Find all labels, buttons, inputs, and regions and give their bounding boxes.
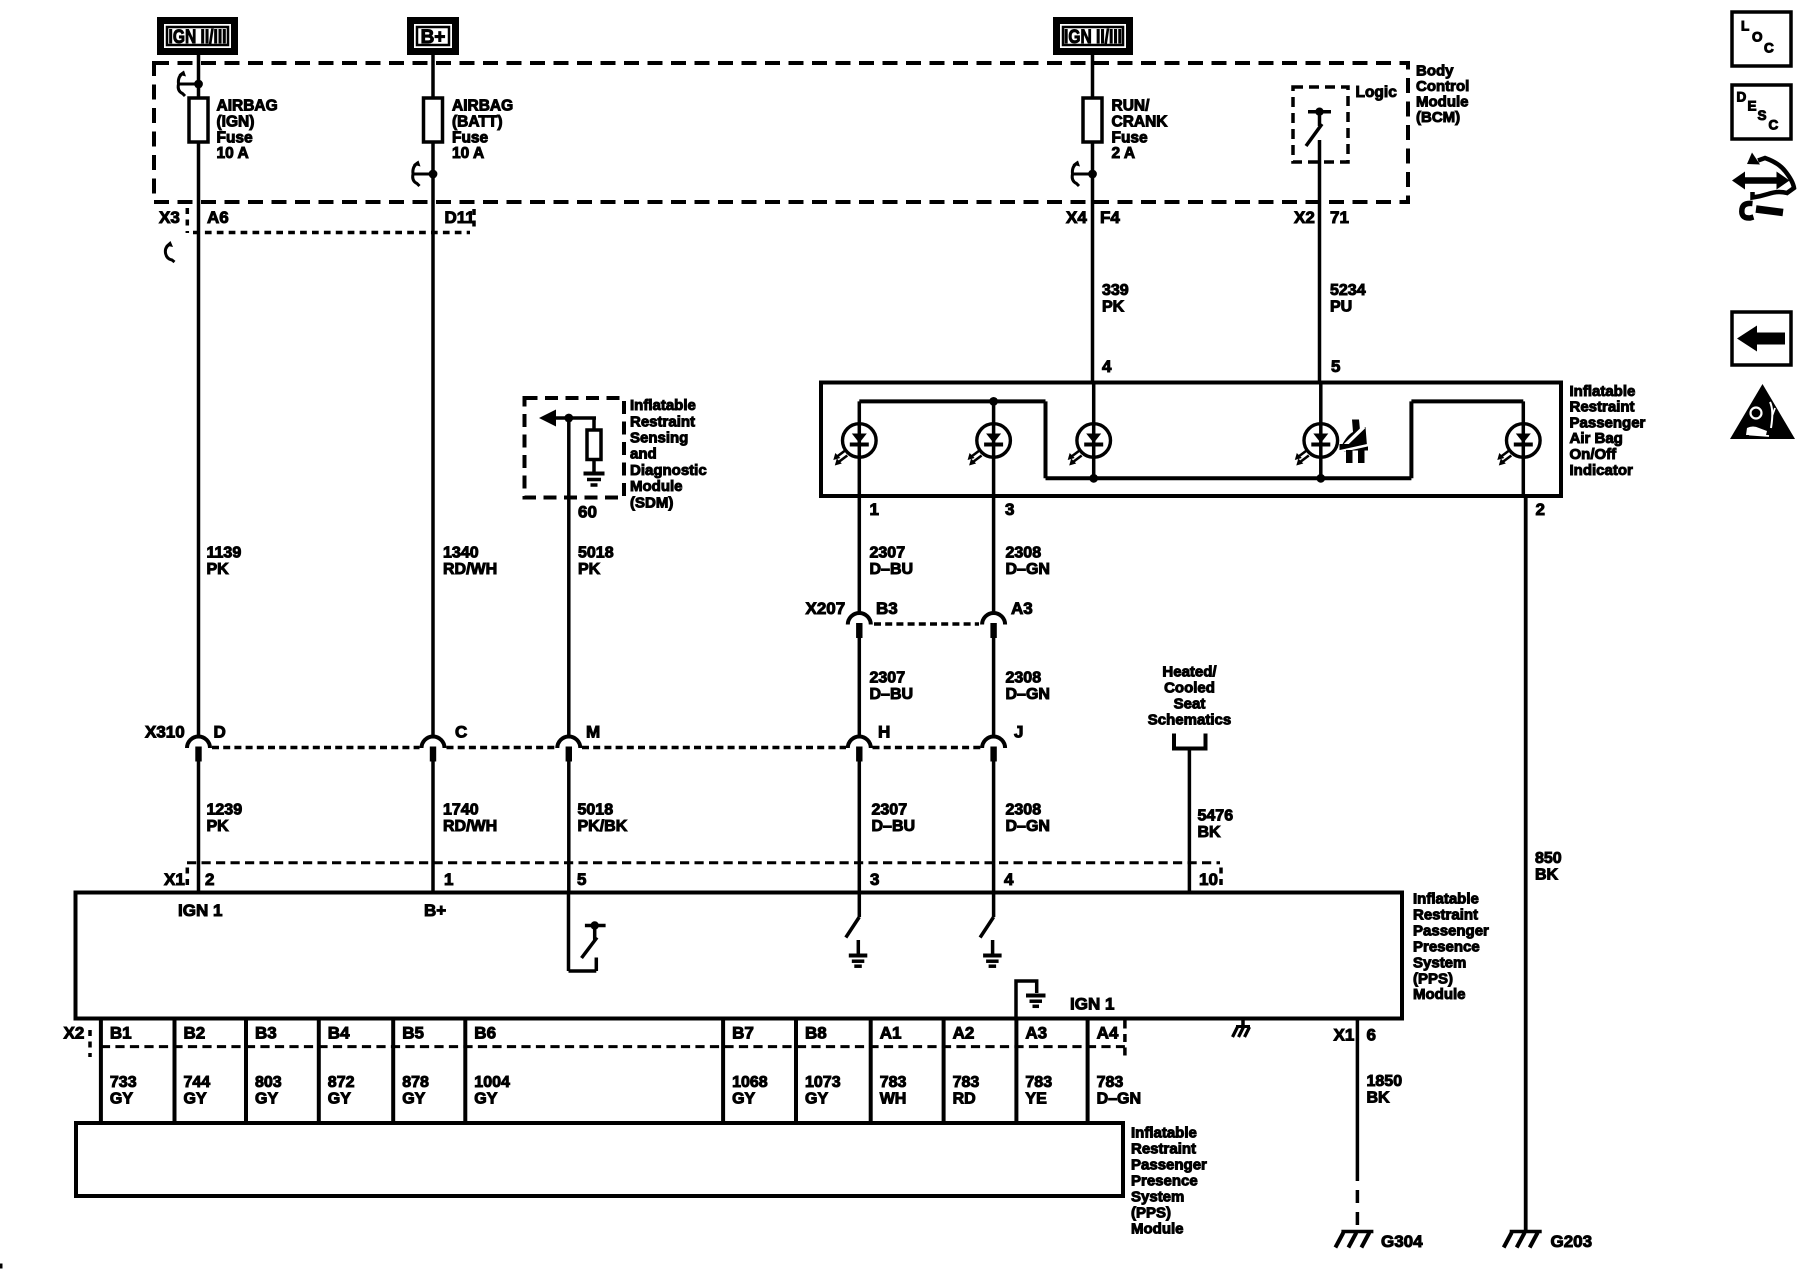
svg-text:Restraint: Restraint — [1570, 399, 1635, 416]
svg-text:783: 783 — [1097, 1074, 1124, 1091]
X2 dotted separator — [88, 1030, 92, 1057]
svg-text:Heated/: Heated/ — [1162, 663, 1217, 680]
svg-text:Control: Control — [1416, 78, 1469, 95]
fuse AIRBAG (IGN) 10A — [189, 98, 208, 142]
svg-text:WH: WH — [880, 1091, 907, 1108]
LED 4 — [1295, 424, 1338, 466]
svg-text:2 A: 2 A — [1112, 145, 1136, 162]
node: LED3 bottom — [1089, 474, 1098, 483]
svg-text:Inflatable: Inflatable — [630, 397, 696, 414]
svg-text:X1: X1 — [1334, 1025, 1355, 1044]
svg-text:Restraint: Restraint — [1131, 1140, 1196, 1157]
svg-text:(PPS): (PPS) — [1413, 970, 1453, 987]
node: LED4 bottom — [1316, 474, 1325, 483]
svg-text:10 A: 10 A — [217, 145, 249, 162]
svg-text:BK: BK — [1367, 1090, 1391, 1107]
fuse AIRBAG (BATT) 10A — [424, 98, 443, 142]
LED 2 — [968, 424, 1011, 466]
svg-text:A1: A1 — [880, 1023, 902, 1042]
svg-text:872: 872 — [328, 1074, 355, 1091]
svg-text:1068: 1068 — [732, 1074, 768, 1091]
X3 dotted separator — [186, 208, 190, 233]
internal switch to ground (pin 4) — [980, 893, 1002, 967]
svg-text:1: 1 — [444, 870, 453, 889]
power feed box IGN II/III (left) — [161, 21, 235, 52]
indicator inner top-right bus — [1411, 399, 1523, 403]
logic switch blade — [1306, 124, 1322, 146]
svg-text:Indicator: Indicator — [1570, 462, 1634, 479]
svg-text:Body: Body — [1416, 62, 1454, 79]
svg-text:AIRBAG: AIRBAG — [217, 98, 278, 115]
wire 5018 PK vertical — [567, 418, 571, 736]
chassis ground on PPS bottom — [1233, 1019, 1251, 1038]
svg-text:M: M — [586, 722, 600, 741]
svg-text:E: E — [1748, 99, 1757, 114]
svg-text:5234: 5234 — [1330, 282, 1366, 299]
svg-text:B+: B+ — [424, 901, 446, 920]
svg-text:H: H — [878, 722, 890, 741]
svg-text:Presence: Presence — [1131, 1172, 1198, 1189]
svg-text:2308: 2308 — [1006, 670, 1042, 687]
SDM arrow line — [539, 410, 596, 427]
svg-text:X310: X310 — [145, 722, 185, 741]
svg-text:60: 60 — [578, 502, 597, 521]
svg-text:Module: Module — [1131, 1220, 1184, 1237]
wire 5018 PK/BK — [567, 760, 571, 893]
power feed box IGN II/III (right) — [1057, 21, 1130, 52]
svg-text:IGN 1: IGN 1 — [1070, 994, 1114, 1013]
svg-text:F4: F4 — [1100, 208, 1120, 227]
svg-text:RD: RD — [953, 1091, 976, 1108]
wire 1850 BK dashed — [1356, 1168, 1360, 1230]
svg-text:D11: D11 — [445, 208, 475, 227]
svg-text:Cooled: Cooled — [1164, 679, 1215, 696]
svg-text:PK: PK — [207, 561, 230, 578]
wire 2308 D-GN upper — [992, 496, 996, 614]
svg-text:Logic: Logic — [1356, 84, 1398, 101]
svg-text:GY: GY — [805, 1091, 828, 1108]
svg-text:RUN/: RUN/ — [1112, 98, 1151, 115]
svg-text:B8: B8 — [805, 1023, 827, 1042]
svg-text:A3: A3 — [1011, 599, 1033, 618]
svg-text:A3: A3 — [1025, 1023, 1047, 1042]
svg-text:Passenger: Passenger — [1131, 1156, 1207, 1173]
airbag warning triangle icon — [1730, 384, 1795, 439]
svg-text:B2: B2 — [184, 1023, 206, 1042]
svg-text:D–BU: D–BU — [872, 818, 916, 835]
svg-text:C: C — [455, 722, 467, 741]
LED4 lead — [1319, 384, 1323, 478]
svg-text:System: System — [1413, 954, 1466, 971]
svg-text:BK: BK — [1198, 824, 1222, 841]
svg-text:AIRBAG: AIRBAG — [452, 98, 513, 115]
svg-text:3: 3 — [870, 870, 879, 889]
svg-text:IGN II/III: IGN II/III — [169, 27, 227, 48]
svg-text:PK/BK: PK/BK — [578, 818, 628, 835]
splice hook on wire 1 — [178, 71, 203, 97]
svg-text:803: 803 — [255, 1074, 282, 1091]
svg-text:733: 733 — [110, 1074, 137, 1091]
Logic dashed box — [1293, 87, 1348, 162]
svg-text:Inflatable: Inflatable — [1413, 891, 1479, 908]
svg-text:GY: GY — [184, 1091, 207, 1108]
svg-text:(PPS): (PPS) — [1131, 1204, 1171, 1221]
svg-text:744: 744 — [184, 1074, 211, 1091]
svg-text:X3: X3 — [159, 208, 180, 227]
svg-text:Fuse: Fuse — [217, 129, 254, 146]
wire 2307 D-BU upper — [858, 496, 862, 614]
svg-text:BK: BK — [1535, 867, 1559, 884]
wire 2307 D-BU mid — [858, 637, 862, 736]
X310 connector arc D — [187, 737, 210, 762]
svg-text:4: 4 — [1102, 357, 1112, 376]
X310 connector arc H — [848, 737, 871, 762]
X207 dashed line — [874, 622, 979, 626]
svg-text:3: 3 — [1005, 500, 1014, 519]
svg-text:1: 1 — [870, 500, 879, 519]
svg-text:Air Bag: Air Bag — [1570, 430, 1623, 447]
node: LED2 top tap — [989, 397, 998, 406]
svg-text:1139: 1139 — [207, 545, 242, 562]
logic switch contact — [1308, 108, 1331, 127]
internal switch (pin 5) — [569, 893, 606, 972]
svg-text:IGN II/III: IGN II/III — [1064, 27, 1122, 48]
svg-text:A2: A2 — [953, 1023, 975, 1042]
LED3 lead — [1092, 384, 1096, 478]
fuse RUN/CRANK 2A — [1083, 98, 1102, 142]
wire 2308 D-GN mid — [992, 637, 996, 736]
X2 connector cell verticals — [101, 1021, 1088, 1124]
svg-text:D: D — [214, 722, 226, 741]
svg-text:1740: 1740 — [443, 802, 479, 819]
svg-text:L: L — [1741, 18, 1749, 33]
X1 connector dashed line — [187, 861, 1220, 864]
svg-text:GY: GY — [255, 1091, 278, 1108]
X3 dotted end bracket — [472, 209, 476, 232]
DESC icon box — [1732, 85, 1791, 139]
indicator inner bottom bus — [1046, 476, 1412, 480]
LED 5 — [1497, 424, 1540, 466]
schematic navigation icon (arrows + wrench) — [1732, 153, 1794, 219]
SDM dashed box — [525, 398, 625, 498]
harness continuation curl below X3 — [165, 244, 174, 263]
svg-text:Passenger: Passenger — [1570, 414, 1646, 431]
svg-text:Fuse: Fuse — [1112, 129, 1149, 146]
svg-text:GY: GY — [110, 1091, 133, 1108]
svg-text:2308: 2308 — [1006, 802, 1042, 819]
svg-text:A6: A6 — [207, 208, 229, 227]
svg-text:S: S — [1758, 108, 1767, 123]
svg-text:and: and — [630, 446, 657, 463]
svg-text:G304: G304 — [1381, 1232, 1423, 1251]
svg-text:5018: 5018 — [578, 802, 614, 819]
svg-text:D–GN: D–GN — [1006, 818, 1050, 835]
svg-text:Restraint: Restraint — [630, 413, 695, 430]
wire 5476 BK vertical — [1188, 749, 1192, 893]
svg-text:5476: 5476 — [1198, 807, 1234, 824]
indicator inner top bus — [859, 399, 1045, 403]
svg-text:10: 10 — [1199, 870, 1218, 889]
ground G203 — [1504, 1232, 1542, 1248]
svg-text:(IGN): (IGN) — [217, 114, 255, 131]
wire 339 PK vertical (RUN/CRANK feed) — [1091, 55, 1095, 384]
svg-text:Diagnostic: Diagnostic — [630, 462, 707, 479]
wire 2308 D-GN lower — [992, 760, 996, 893]
svg-text:Module: Module — [630, 478, 683, 495]
X2 cell dashed right edge — [1123, 1021, 1127, 1061]
svg-text:IGN 1: IGN 1 — [178, 901, 222, 920]
svg-text:783: 783 — [880, 1074, 907, 1091]
SDM resistor — [587, 418, 601, 472]
svg-text:GY: GY — [402, 1091, 425, 1108]
svg-text:2308: 2308 — [1006, 545, 1042, 562]
svg-text:5: 5 — [577, 870, 586, 889]
wire 1239 PK — [197, 760, 201, 893]
svg-text:5: 5 — [1331, 357, 1340, 376]
reference bracket — [1174, 734, 1206, 749]
svg-text:C: C — [1769, 117, 1779, 132]
X2 connector dashed line — [101, 1045, 1125, 1048]
svg-text:(SDM): (SDM) — [630, 494, 673, 511]
svg-text:Seat: Seat — [1174, 695, 1206, 712]
wire 1139 PK vertical (IGN feed) — [197, 55, 201, 736]
svg-text:10 A: 10 A — [452, 145, 484, 162]
svg-text:1004: 1004 — [474, 1074, 510, 1091]
svg-text:RD/WH: RD/WH — [443, 561, 497, 578]
X1 dotted separator — [186, 868, 190, 891]
svg-text:B4: B4 — [328, 1023, 350, 1042]
svg-text:878: 878 — [402, 1074, 429, 1091]
lower PPS module box — [76, 1123, 1123, 1196]
svg-text:850: 850 — [1535, 850, 1562, 867]
wire 1340 RD/WH vertical (B+ feed) — [431, 55, 435, 736]
LED 1 — [833, 424, 876, 466]
X207 connector arc A3 — [982, 613, 1005, 638]
svg-text:A4: A4 — [1097, 1023, 1119, 1042]
svg-text:(BATT): (BATT) — [452, 114, 503, 131]
svg-text:GY: GY — [474, 1091, 497, 1108]
svg-text:B7: B7 — [732, 1023, 754, 1042]
svg-text:5018: 5018 — [578, 545, 614, 562]
svg-text:Module: Module — [1416, 94, 1469, 111]
Body Control Module (BCM) dashed box — [154, 63, 1408, 202]
LED5 lead — [1522, 401, 1526, 496]
svg-text:1239: 1239 — [207, 802, 243, 819]
back arrow icon box — [1732, 312, 1791, 365]
wire 1740 RD/WH — [431, 760, 435, 893]
SDM ground — [584, 474, 605, 486]
wire 850 BK vertical — [1524, 496, 1528, 1231]
svg-text:339: 339 — [1102, 282, 1129, 299]
svg-text:D–BU: D–BU — [870, 561, 914, 578]
svg-text:D–GN: D–GN — [1006, 686, 1050, 703]
svg-text:6: 6 — [1367, 1025, 1376, 1044]
svg-text:1850: 1850 — [1367, 1073, 1403, 1090]
svg-text:783: 783 — [953, 1074, 980, 1091]
svg-text:B+: B+ — [421, 27, 446, 48]
svg-text:X1: X1 — [164, 870, 185, 889]
svg-text:RD/WH: RD/WH — [443, 818, 497, 835]
svg-text:X2: X2 — [1294, 208, 1315, 227]
internal switch to ground (pin 3) — [846, 893, 868, 967]
wire 5234 PU vertical — [1318, 140, 1322, 384]
svg-text:D–BU: D–BU — [870, 686, 914, 703]
svg-text:Presence: Presence — [1413, 938, 1480, 955]
svg-text:G203: G203 — [1551, 1232, 1593, 1251]
svg-text:Inflatable: Inflatable — [1570, 383, 1636, 400]
svg-text:Fuse: Fuse — [452, 129, 489, 146]
svg-text:D–GN: D–GN — [1097, 1091, 1141, 1108]
svg-text:B1: B1 — [110, 1023, 132, 1042]
splice hook on wire 6 — [1072, 161, 1097, 187]
svg-text:D: D — [1737, 89, 1747, 104]
wire 2307 D-BU lower — [858, 760, 862, 893]
svg-text:On/Off: On/Off — [1570, 446, 1618, 463]
Inflatable Restraint Passenger Air Bag On/Off Indicator box — [821, 383, 1561, 497]
LED2 lead — [992, 401, 996, 496]
svg-text:PK: PK — [1102, 299, 1125, 316]
svg-text:Passenger: Passenger — [1413, 922, 1489, 939]
svg-text:Inflatable: Inflatable — [1131, 1124, 1197, 1141]
svg-text:2: 2 — [1536, 500, 1545, 519]
svg-text:X4: X4 — [1066, 208, 1087, 227]
X310 connector arc C — [422, 737, 445, 762]
svg-text:Sensing: Sensing — [630, 430, 688, 447]
indicator inner right riser — [1409, 401, 1413, 478]
svg-text:1340: 1340 — [443, 545, 479, 562]
wire 1850 BK solid — [1356, 1042, 1360, 1168]
LED1 lead — [858, 401, 862, 496]
svg-text:71: 71 — [1330, 208, 1349, 227]
svg-text:CRANK: CRANK — [1112, 114, 1169, 131]
svg-text:GY: GY — [732, 1091, 755, 1108]
X310 connector arc M — [557, 737, 580, 762]
X1 dotted end bracket — [1219, 868, 1223, 891]
svg-text:783: 783 — [1025, 1074, 1052, 1091]
svg-text:C: C — [1764, 40, 1774, 55]
svg-text:Restraint: Restraint — [1413, 907, 1478, 924]
svg-text:X2: X2 — [64, 1023, 85, 1042]
LOC icon box — [1732, 12, 1791, 66]
svg-text:PK: PK — [578, 561, 601, 578]
seat belt icon — [1339, 420, 1369, 464]
power feed box B+ — [411, 21, 456, 52]
internal IGN 1 ground — [1016, 981, 1046, 1019]
svg-text:B6: B6 — [474, 1023, 496, 1042]
svg-text:1073: 1073 — [805, 1074, 841, 1091]
X3 dotted connector line — [193, 231, 470, 235]
X310 dashed line — [212, 746, 420, 750]
page speck (left edge) — [0, 1264, 3, 1269]
svg-text:PU: PU — [1330, 299, 1352, 316]
splice hook on wire 2 — [413, 161, 438, 187]
svg-text:2307: 2307 — [870, 670, 906, 687]
svg-text:(BCM): (BCM) — [1416, 109, 1460, 126]
X310 connector arc J — [982, 737, 1005, 762]
svg-text:B3: B3 — [255, 1023, 277, 1042]
svg-text:2: 2 — [205, 870, 214, 889]
X207 connector arc B3 — [848, 613, 871, 638]
svg-text:Schematics: Schematics — [1148, 711, 1231, 728]
svg-text:J: J — [1014, 722, 1023, 741]
LED 3 — [1068, 424, 1111, 466]
indicator inner left riser — [1044, 401, 1048, 478]
ground G304 — [1335, 1232, 1373, 1248]
svg-text:B5: B5 — [402, 1023, 424, 1042]
svg-text:4: 4 — [1004, 870, 1014, 889]
svg-text:System: System — [1131, 1188, 1184, 1205]
Inflatable Restraint Passenger Presence System (PPS) Module box — [76, 893, 1403, 1019]
svg-text:YE: YE — [1025, 1091, 1047, 1108]
svg-text:X207: X207 — [806, 599, 846, 618]
svg-text:GY: GY — [328, 1091, 351, 1108]
svg-text:Module: Module — [1413, 986, 1466, 1003]
svg-text:B3: B3 — [876, 599, 898, 618]
svg-text:D–GN: D–GN — [1006, 561, 1050, 578]
svg-text:O: O — [1752, 29, 1763, 44]
svg-text:PK: PK — [207, 818, 230, 835]
svg-text:2307: 2307 — [870, 545, 906, 562]
pin 6 separator — [1356, 1019, 1360, 1043]
svg-text:2307: 2307 — [872, 802, 908, 819]
